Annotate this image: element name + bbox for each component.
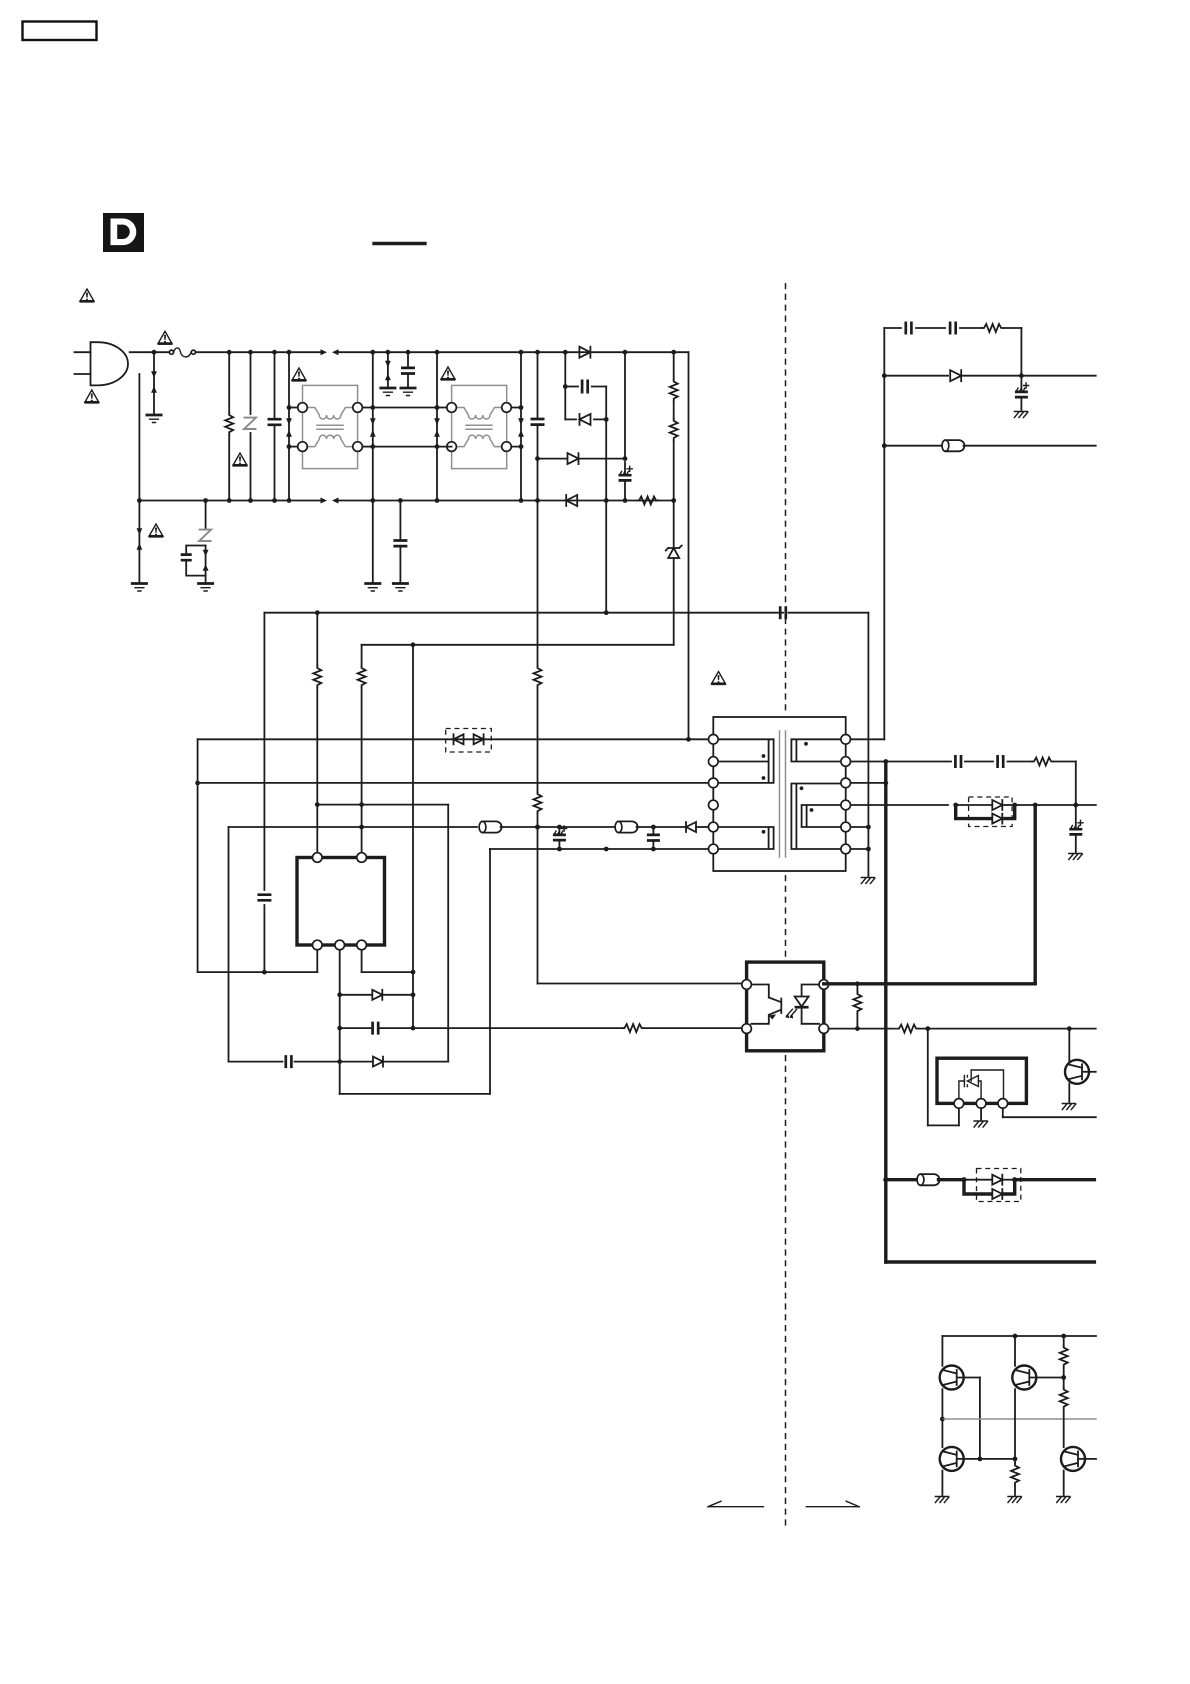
Q5 base lead [1083, 1071, 1096, 1073]
AC plug prong lines [75, 352, 91, 374]
connector arrows top wire [321, 349, 339, 355]
node neutral corner [137, 498, 142, 503]
IC pin bot 1 [313, 940, 323, 950]
clamp diode 2 [474, 734, 484, 744]
page label box [23, 22, 97, 41]
wire pin10 out [851, 781, 889, 786]
varistor Z1 [244, 350, 256, 503]
LF2 pin 2 [447, 442, 457, 452]
IC pin top B [357, 853, 367, 863]
dashed box sec diodes [969, 797, 1013, 827]
transistor Q5 [1065, 1060, 1089, 1084]
connector line to ground mid [385, 350, 391, 387]
diode D main [579, 347, 627, 358]
main output rail thick [884, 762, 887, 1263]
T1 aux winding [718, 827, 774, 849]
section marker D [103, 213, 144, 252]
transistor Q2 collector [1014, 1336, 1016, 1366]
PC1 led [795, 985, 819, 1024]
ground Q3 [935, 1497, 949, 1503]
PC1 light arrows [786, 1009, 797, 1018]
connector arrows neutral [137, 501, 143, 583]
sec rect diode top [884, 370, 1095, 381]
wire pin8 out [851, 826, 869, 828]
wire pin11 out [851, 759, 889, 764]
AC bottom wire segment 1 [139, 500, 322, 502]
capacitor C input [268, 350, 282, 503]
row pin6 wire [490, 847, 709, 852]
LF2 pin 4 [502, 442, 512, 452]
sec snubber row 761 [886, 755, 1076, 805]
fuse F1 [169, 348, 195, 357]
connector line to chassis [151, 352, 157, 414]
T1 pin 6 [709, 844, 719, 854]
T1 pin 7 [841, 844, 851, 854]
driver top rail [942, 1334, 1096, 1339]
snubber capacitor [565, 380, 606, 394]
PC1 pin 3 [819, 1024, 829, 1034]
resistor R opto [623, 1024, 742, 1032]
AC top wire segment 1 [196, 351, 323, 353]
wire inter-filter bottom [373, 446, 437, 448]
filter capacitor CX [531, 350, 545, 503]
IC pin bot 2 [335, 940, 345, 950]
isolation boundary dashed mid [785, 875, 787, 958]
diode D return [566, 495, 577, 506]
varistor Z2 [199, 501, 211, 583]
control line x413 [411, 645, 416, 1031]
wire LF1 out bottom [362, 446, 372, 448]
IC2 zener internal [959, 1070, 1004, 1099]
ground Z2 [197, 584, 214, 592]
transistor Q1 [940, 1366, 964, 1390]
Q1 emitter [940, 1389, 945, 1421]
interconnect arrow right [806, 1501, 859, 1507]
IC pin top A [313, 853, 323, 863]
ground below LF1 out [364, 584, 381, 592]
Q2 base lead [1030, 1375, 1066, 1380]
LF1 core [317, 425, 343, 429]
diode D aux [535, 453, 625, 464]
row F wire right [789, 612, 869, 614]
ground neutral [131, 584, 148, 592]
feedback row upper [317, 804, 448, 806]
connector line LF2 output [518, 350, 524, 503]
Y-capacitor mid [401, 350, 415, 387]
wire plug neutral down [138, 374, 140, 501]
bead inductor L aux [479, 821, 502, 832]
warning near Z2 [149, 524, 164, 536]
resistor R return [637, 497, 676, 505]
chassis ground under fuse [146, 415, 163, 423]
T1 sec winding 2 [791, 784, 845, 850]
IC2 pin3 out [1003, 1108, 1096, 1117]
output row mid thick [883, 1177, 916, 1182]
line x490 down [489, 849, 491, 1094]
snubber diode [565, 414, 608, 425]
T1 pin 5 [709, 822, 719, 832]
row 805 cont [1015, 803, 1096, 808]
ground mid-1 [379, 388, 396, 396]
snubber branch line [563, 352, 568, 419]
row pin3 wire [198, 782, 709, 784]
T1 pin 11 [841, 757, 851, 767]
connector arrows bottom wire [321, 498, 339, 504]
Q2 emitter resistor [1011, 1459, 1019, 1495]
startup line x538 [534, 501, 542, 984]
T1 pin 12 [841, 735, 851, 745]
bead output [917, 1174, 939, 1185]
sec out row 446 [884, 445, 942, 447]
bead inductor L aux2 [615, 821, 638, 832]
sec ground line x868 [866, 613, 871, 876]
sec filter pcap top [1015, 376, 1029, 410]
warning below plug [85, 390, 100, 402]
line to ground below LF1 out [372, 501, 374, 583]
IC pin2 bottom jog [340, 1093, 490, 1095]
out diode b loop [964, 1180, 1015, 1199]
PC1 phototransistor [751, 985, 781, 1024]
AC plug connector [91, 342, 128, 385]
capacitor across Z2 [181, 546, 206, 576]
resistor R base lower [1060, 1378, 1068, 1448]
warning symbol top-left [80, 289, 95, 301]
opto sense row [538, 983, 742, 985]
ground mid-2 [400, 388, 417, 396]
PC1 pin 2 [742, 1024, 752, 1034]
IC2 pin 3 [998, 1099, 1008, 1109]
aux cap to row6 [647, 827, 660, 851]
IC pin bot 3 [357, 940, 367, 950]
node fuse-out [152, 350, 157, 355]
warning above fuse [158, 331, 173, 343]
wire LF1 out top [362, 407, 372, 409]
node snubber top [563, 350, 568, 355]
Q3 base row [980, 1457, 1017, 1462]
node Z2 top [203, 498, 208, 503]
IC2 pin 1 [954, 1099, 964, 1109]
T1 primary winding [718, 739, 774, 783]
resistor R input [225, 350, 233, 503]
feedback loop right [447, 805, 449, 1062]
sec out row 446 b [964, 445, 1096, 447]
node row F x318 [315, 610, 320, 615]
IC U1 box [297, 858, 385, 946]
aux rail line [623, 352, 628, 461]
T1 sec winding 1 [791, 739, 845, 761]
sec diode b loop [956, 805, 1015, 824]
diode row ic [340, 990, 413, 1000]
isolation boundary dashed lower [785, 1055, 787, 1528]
connector line LF1 input [286, 350, 292, 503]
wire inter-filter top [373, 407, 437, 409]
line filter LF1 box [303, 385, 358, 468]
T1 pin 8 [841, 822, 851, 832]
dashed box clamp diodes [446, 729, 492, 753]
wire plug to fuse [130, 351, 170, 353]
snubber row top right [884, 322, 1021, 376]
sec diode a [956, 800, 1017, 810]
T1 pin 10 [841, 778, 851, 788]
transistor Q3 [940, 1447, 964, 1471]
T1 pin 3 [709, 778, 719, 788]
driver mid rail [942, 1418, 1096, 1420]
warning near transformer [711, 672, 726, 684]
ground sec x868 [861, 878, 875, 884]
LF1 winding bottom [307, 435, 353, 447]
capacitor to ground below wire [393, 498, 407, 582]
LF1 pin 3 [353, 403, 363, 413]
node row F x606 [604, 610, 609, 615]
thick opto rail [824, 982, 1035, 985]
line x228 aux [228, 827, 230, 1062]
LF1 pin 4 [353, 442, 363, 452]
primary rail line [686, 352, 691, 741]
IC2 pin 2 [976, 1099, 986, 1109]
bead sec out [942, 440, 965, 451]
sec line x884 [851, 328, 887, 739]
wire LF2 in top [437, 407, 447, 409]
LF2 core [466, 425, 492, 429]
wire LF1 in top [289, 407, 298, 409]
wire to transformer pin1 [689, 738, 709, 740]
Q4 base lead [1079, 1458, 1097, 1460]
AC bottom wire segment 2 [337, 500, 674, 502]
IC pin3 jog [362, 950, 413, 972]
shunt regulator IC2 box [937, 1058, 1026, 1103]
T1 pin 9 [841, 800, 851, 810]
wire LF2 in bottom [437, 446, 452, 448]
output row bottom thick [886, 1260, 1095, 1263]
optocoupler PC1 box [747, 962, 824, 1051]
wire bead2 to diode [637, 825, 686, 830]
output row mid thick b [939, 1177, 967, 1182]
Q1-Q3 link [941, 1419, 943, 1447]
transistor Q4 [1061, 1447, 1085, 1471]
title underline [374, 242, 425, 245]
LF2 pin 3 [502, 403, 512, 413]
interconnect arrow left [708, 1501, 763, 1507]
LF1 pin 1 [298, 403, 308, 413]
T1 pin 1 [709, 735, 719, 745]
ground below cap [392, 584, 409, 592]
Q2 emitter [1014, 1389, 1016, 1459]
T1 sec winding 3 [802, 805, 846, 827]
LF2 winding bottom [456, 435, 502, 447]
wire LF1 in bottom [289, 446, 298, 448]
T1 pin 4 [709, 800, 719, 810]
warning above LF1 [292, 368, 307, 380]
IC source row [198, 950, 318, 972]
wire pin7 out [851, 848, 869, 850]
sense line thick x1035 [1033, 805, 1036, 984]
reg bias resistor [853, 981, 861, 1031]
cap row ic [340, 1022, 413, 1035]
clamp diode 1 [454, 734, 464, 744]
row F wire left [264, 612, 783, 614]
LF1 winding top [307, 408, 353, 420]
transistor Q1 collector [941, 1336, 943, 1366]
warning above LF2 [441, 367, 456, 379]
Q5 emitter line [1068, 1084, 1070, 1103]
left control line x196 [195, 739, 200, 972]
line filter LF2 box [452, 385, 507, 468]
Y-capacitor isolation [780, 606, 786, 619]
capacitor C aux + [604, 462, 632, 503]
ground IC2 [974, 1121, 988, 1127]
feedback line x265 [257, 613, 271, 975]
output row mid thick c [1015, 1178, 1095, 1181]
ground sec mid [1069, 854, 1083, 860]
PC1 pin 4 [819, 980, 829, 990]
connector line LF2 input [434, 350, 440, 503]
wire pin9 out [851, 803, 959, 808]
transformer T1 box [713, 717, 845, 871]
Q3 emitter [941, 1471, 943, 1495]
Q1 base route [957, 1378, 982, 1462]
AC top wire segment 2 [337, 351, 689, 353]
LF2 pin 1 [447, 403, 457, 413]
ground Q4 [1057, 1497, 1071, 1503]
isolation boundary dashed upper [785, 283, 787, 712]
wire after bead [501, 825, 615, 830]
reg ref jog [928, 1029, 959, 1126]
bias line x318 [313, 613, 321, 853]
out diode a [964, 1175, 1017, 1185]
sec filter pcap mid [1069, 805, 1083, 852]
row G wire [362, 642, 674, 647]
resistor R base upper [1060, 1336, 1068, 1378]
ground sec top [1014, 412, 1028, 418]
LF2 winding top [456, 408, 502, 420]
aux rectifier diode [686, 822, 709, 832]
PC1 pin 1 [742, 980, 752, 990]
transistor Q2 [1012, 1366, 1036, 1390]
low cap row [229, 1055, 372, 1068]
long line snubber-right [605, 387, 607, 613]
LF1 pin 2 [298, 442, 308, 452]
wire LF2 out top [511, 407, 521, 409]
Q4 emitter [1063, 1471, 1065, 1495]
bias line x362 [358, 645, 366, 853]
low diode [373, 1057, 448, 1067]
T1 pin 2 [709, 757, 719, 767]
zener diode ZD [666, 501, 682, 645]
transistor Q5 collector line [1068, 1029, 1070, 1063]
aux pcap + [553, 826, 567, 851]
row primary top wire [198, 738, 689, 740]
IC pin2 line [337, 950, 342, 1094]
ground Q2 [1008, 1497, 1022, 1503]
T1 core [780, 731, 786, 857]
reg row [829, 1025, 1096, 1033]
IC2 pin2 ground line [980, 1108, 982, 1119]
wire LF2 out bottom [511, 446, 521, 448]
Q3 base lead [957, 1458, 980, 1460]
opto drive row [413, 1027, 624, 1029]
startup resistor chain [670, 350, 678, 501]
dashed box out diodes [977, 1169, 1021, 1202]
connector line LF1 output [370, 350, 376, 503]
ground Q5 [1062, 1104, 1076, 1110]
warning near varistor [233, 453, 248, 465]
row aux supply wire [229, 826, 478, 828]
